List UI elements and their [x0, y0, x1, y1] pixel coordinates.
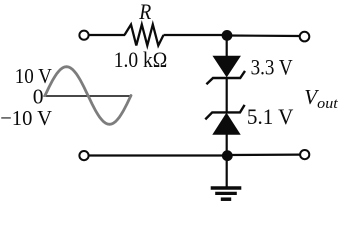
svg-text:out: out: [317, 96, 339, 112]
wire: D1 to D2: [226, 77, 228, 113]
ground: [211, 188, 242, 199]
wire: D2 down to node B: [226, 134, 228, 156]
terminal T4 (bottom-right): [300, 150, 309, 159]
terminal T2 (top-right output): [300, 32, 310, 42]
zener diode D1 (3.3 V, cathode down): [206, 56, 245, 84]
node A (top junction dot): [222, 30, 233, 41]
wire: node B down to ground: [226, 156, 228, 187]
wire top-left: terminal to resistor: [89, 34, 125, 36]
source waveform axis: [43, 95, 131, 97]
terminal T1 (top-left input): [79, 31, 88, 40]
wire bottom-left: terminal to node B: [89, 154, 227, 156]
svg-text:R: R: [138, 0, 151, 24]
wire top-middle: resistor to node A: [164, 34, 228, 36]
svg-text:1.0 kΩ: 1.0 kΩ: [114, 47, 168, 72]
terminal T3 (bottom-left): [79, 151, 88, 160]
zener diode D2 (5.1 V, cathode up): [205, 105, 244, 134]
label Vout: [304, 85, 338, 112]
resistor R: [125, 25, 164, 46]
svg-text:5.1 V: 5.1 V: [247, 104, 294, 129]
wire bottom-right: node B to terminal: [227, 154, 300, 157]
svg-text:−10 V: −10 V: [0, 106, 52, 130]
wire top-right: node A to output terminal: [227, 34, 300, 37]
source sine wave: [45, 67, 131, 125]
svg-text:3.3 V: 3.3 V: [251, 54, 293, 79]
node B (bottom junction dot): [222, 150, 233, 161]
svg-text:0: 0: [33, 85, 44, 109]
wire: node A down to zener D1: [226, 36, 228, 58]
